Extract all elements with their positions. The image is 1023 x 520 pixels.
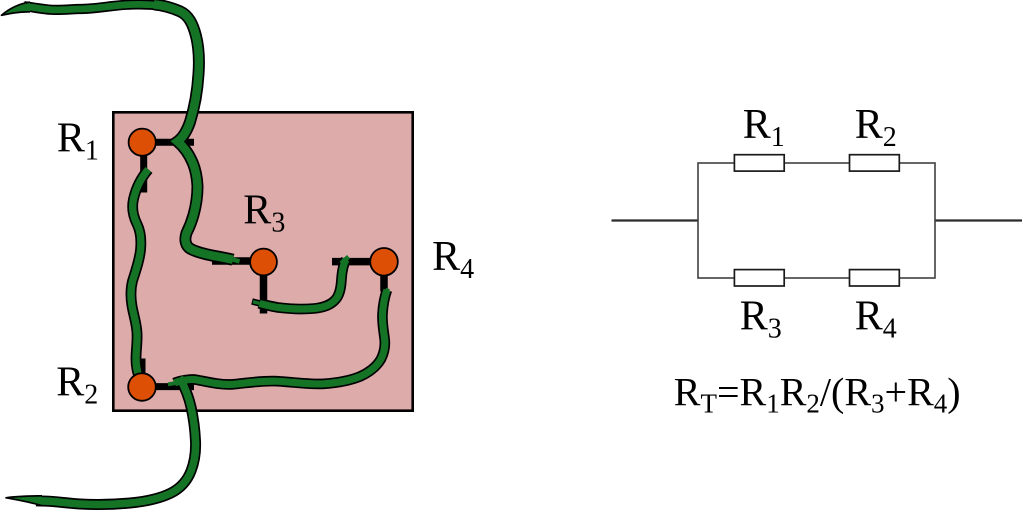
wire D green tip on R4 stub	[386, 289, 389, 296]
pad R1 (orange)	[129, 129, 156, 156]
green wire D outline (R4 down to R2)	[175, 290, 388, 384]
schematic left lead wire	[612, 219, 699, 221]
resistor R2 box	[850, 155, 900, 171]
wire A tapered left tip	[2, 2, 31, 15]
pad R3 vertical stub wire	[260, 262, 268, 314]
pad R4 (orange)	[370, 248, 398, 276]
green wire E core	[36, 378, 196, 505]
green wire D core	[175, 290, 388, 384]
pad R1 vertical stub wire	[140, 142, 147, 193]
resistor R1 box	[734, 155, 784, 171]
wire C green wedge on R4 stub	[341, 257, 349, 264]
green wire E outline (R2 out of board to bottom left)	[36, 378, 196, 505]
pad R4 vertical stub wire	[380, 262, 388, 292]
green wire C core	[259, 260, 346, 310]
PCB board (pink square)	[113, 112, 412, 410]
pad R4 horizontal stub wire	[332, 258, 384, 266]
pad R2 horizontal stub wire	[142, 383, 194, 390]
pad R1 horizontal stub wire	[142, 139, 194, 146]
pad R2 (orange)	[128, 373, 156, 401]
green wire A core	[24, 4, 169, 10]
resistor R4 box	[850, 270, 900, 286]
pad R3 (orange)	[250, 249, 277, 276]
green wire B core	[131, 169, 148, 377]
pad R2 vertical stub wire	[139, 359, 146, 388]
wire E tapered left tip	[6, 496, 42, 506]
resistor R3 box	[734, 270, 784, 286]
green wire C outline (R3 to R4)	[259, 260, 346, 310]
pad R3 horizontal stub wire	[212, 257, 263, 265]
wire D green wedge on R2 stub	[168, 383, 175, 384]
schematic right lead wire	[935, 219, 1022, 221]
green wire B outline (R1 down to R2)	[131, 169, 148, 377]
wire A green wedge on R3 stub	[233, 260, 240, 262]
schematic loop wire	[698, 163, 935, 278]
wire C tapered left tip	[252, 301, 260, 303]
green wire A outline (top lead into board to R3)	[24, 4, 169, 10]
